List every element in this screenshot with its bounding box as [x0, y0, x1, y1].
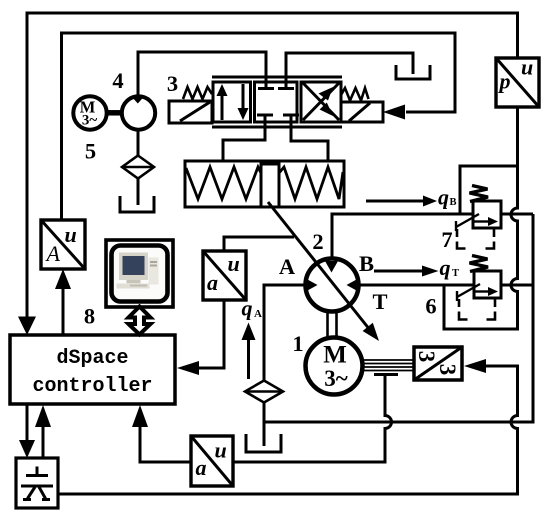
- arrowhead up into u/A box: [55, 269, 71, 289]
- svg-text:q: q: [438, 185, 449, 210]
- svg-text:8: 8: [84, 304, 95, 329]
- arrowhead into dSpace right: [177, 361, 199, 375]
- svg-text:u: u: [521, 55, 533, 80]
- speed pickup bar: [374, 373, 398, 376]
- svg-text:q: q: [440, 255, 451, 280]
- svg-text:4: 4: [112, 68, 123, 93]
- motor 5: [73, 96, 106, 129]
- relief valve 7 body: [456, 201, 501, 231]
- pipe filter1 to tank1: [137, 179, 140, 206]
- svg-text:A: A: [254, 308, 262, 320]
- relief valve 7 spring: [470, 186, 489, 202]
- filter 1: [122, 156, 154, 179]
- tank top right: [396, 65, 430, 79]
- wire relief valve 6 outlet: [501, 284, 533, 287]
- filter 2: [245, 381, 283, 403]
- wire angle sensor tap to lever: [224, 237, 294, 251]
- relief valve 7 pilot dashed box: [457, 229, 494, 249]
- svg-text:B: B: [450, 197, 457, 208]
- svg-text:7: 7: [441, 227, 452, 252]
- pump 2 top port triangle: [325, 261, 338, 273]
- pipe pump4 to filter1: [137, 131, 140, 157]
- arrowhead into converter 3/3: [464, 359, 486, 373]
- svg-text:u: u: [215, 438, 227, 463]
- wire pump2 port A to filter: [264, 285, 307, 381]
- wire valve B work port to cylinder: [291, 116, 328, 161]
- svg-text:5: 5: [85, 139, 96, 164]
- wire signal generator to dSpace: [42, 424, 45, 458]
- valve 3 left solenoid: [169, 101, 212, 123]
- double arrow computer to dSpace: [129, 307, 151, 335]
- lever arrowhead: [363, 323, 379, 341]
- dSpace controller box: [10, 335, 175, 404]
- svg-text:M: M: [323, 342, 347, 369]
- valve 3 left position arrows: [217, 84, 249, 120]
- computer 8 pc picture: [117, 253, 159, 289]
- svg-text:a: a: [207, 270, 218, 295]
- svg-text:6: 6: [425, 294, 436, 319]
- valve 3 center position blocked ports: [257, 81, 299, 123]
- relief valve 6 body: [457, 271, 501, 301]
- svg-text:u: u: [228, 251, 240, 276]
- wire pump4 supply to valve P port: [138, 52, 266, 95]
- pump 2 left port triangle: [308, 280, 318, 291]
- svg-text:p: p: [498, 69, 511, 94]
- wire valve T port to tank: [286, 53, 413, 86]
- qT annotation arrow: [374, 266, 439, 277]
- wire dSpace to signal generator: [26, 404, 29, 441]
- valve 3 body: [212, 77, 342, 127]
- wire a/u bottom sensor to dSpace: [140, 427, 191, 462]
- svg-text:3~: 3~: [82, 113, 98, 129]
- tank 1 top left: [120, 196, 154, 212]
- arrowhead down into signal generator: [19, 440, 35, 458]
- cylinder left spring: [186, 167, 261, 199]
- cylinder right spring: [279, 167, 343, 199]
- wire a/u middle sensor to dSpace: [199, 300, 224, 368]
- wire pump2 right port to relief valve 6: [359, 284, 475, 287]
- wire rail2 u/A output to valve right solenoid: [62, 33, 456, 222]
- relief valve 6 pilot dashed box: [459, 299, 495, 320]
- motor 1 circle: [306, 338, 363, 395]
- svg-text:controller: controller: [32, 375, 152, 398]
- svg-text:B: B: [359, 251, 374, 276]
- cylinder piston: [261, 164, 279, 207]
- sensor p/u box: [496, 58, 539, 107]
- sensor a/u bottom box: [191, 436, 233, 486]
- wire rail1 p/u sensor output to dSpace: [27, 13, 518, 318]
- computer 8 inner rounded frame: [112, 246, 168, 302]
- svg-text:T: T: [452, 268, 459, 279]
- computer 8 outer box: [106, 240, 173, 307]
- svg-text:T: T: [372, 289, 387, 314]
- wire hydraulic return line bottom: [264, 214, 533, 422]
- sensor a/u middle box: [203, 251, 246, 300]
- wire p/u branch to valve7 inlet: [460, 166, 518, 214]
- svg-text:a: a: [196, 455, 207, 480]
- svg-text:1: 1: [292, 331, 303, 356]
- svg-text:3: 3: [435, 364, 460, 376]
- valve 3 right spring: [341, 88, 369, 101]
- valve 3 left spring: [183, 87, 212, 99]
- wire pump2 top port to relief valve 7: [332, 214, 473, 259]
- pump 2 circle: [306, 259, 359, 312]
- svg-text:3: 3: [167, 71, 178, 96]
- svg-text:3~: 3~: [324, 366, 348, 391]
- svg-text:A: A: [279, 254, 296, 279]
- wire valve A work port to cylinder: [223, 116, 265, 161]
- qB annotation arrow: [366, 196, 437, 207]
- signal generator box: [16, 458, 58, 508]
- wire signal generator to frequency converter: [58, 366, 518, 494]
- wire relief valve 7 outlet: [501, 213, 533, 216]
- svg-text:3: 3: [414, 351, 439, 363]
- tank bottom center: [246, 434, 281, 452]
- arrowhead into right solenoid: [383, 105, 405, 120]
- lever feedback link: [268, 202, 370, 330]
- pump 2 right port triangle: [347, 280, 357, 291]
- arrowhead into dSpace top: [18, 317, 36, 336]
- pump 4: [122, 96, 155, 129]
- svg-text:u: u: [65, 222, 77, 247]
- shaft pump2 to motor1: [328, 311, 337, 338]
- svg-text:dSpace: dSpace: [56, 347, 128, 370]
- arrowhead up into dSpace from generator: [35, 405, 51, 427]
- valve 3 right solenoid: [341, 102, 383, 122]
- three phase lines motor1 to converter: [362, 360, 414, 371]
- arrowhead up into dSpace bottom: [132, 405, 148, 427]
- signal generator symbol: [21, 467, 53, 500]
- valve 3 right position crossed arrows: [303, 83, 339, 120]
- svg-text:2: 2: [312, 229, 323, 254]
- svg-text:q: q: [242, 296, 253, 321]
- wire p/u pressure tap with hops: [444, 107, 518, 329]
- pilot cylinder body: [185, 161, 344, 207]
- shaft motor5 to pump4: [106, 110, 122, 116]
- relief valve 6 spring: [470, 256, 489, 272]
- wire dSpace to u/A converter: [62, 287, 65, 335]
- qA annotation arrow: [242, 323, 256, 380]
- frequency converter 3/3: [414, 347, 462, 380]
- wire speed tap to a/u sensor: [233, 376, 392, 462]
- wire filter to tank bottom: [263, 402, 266, 446]
- svg-text:A: A: [45, 241, 61, 266]
- sensor u/A box: [41, 220, 85, 269]
